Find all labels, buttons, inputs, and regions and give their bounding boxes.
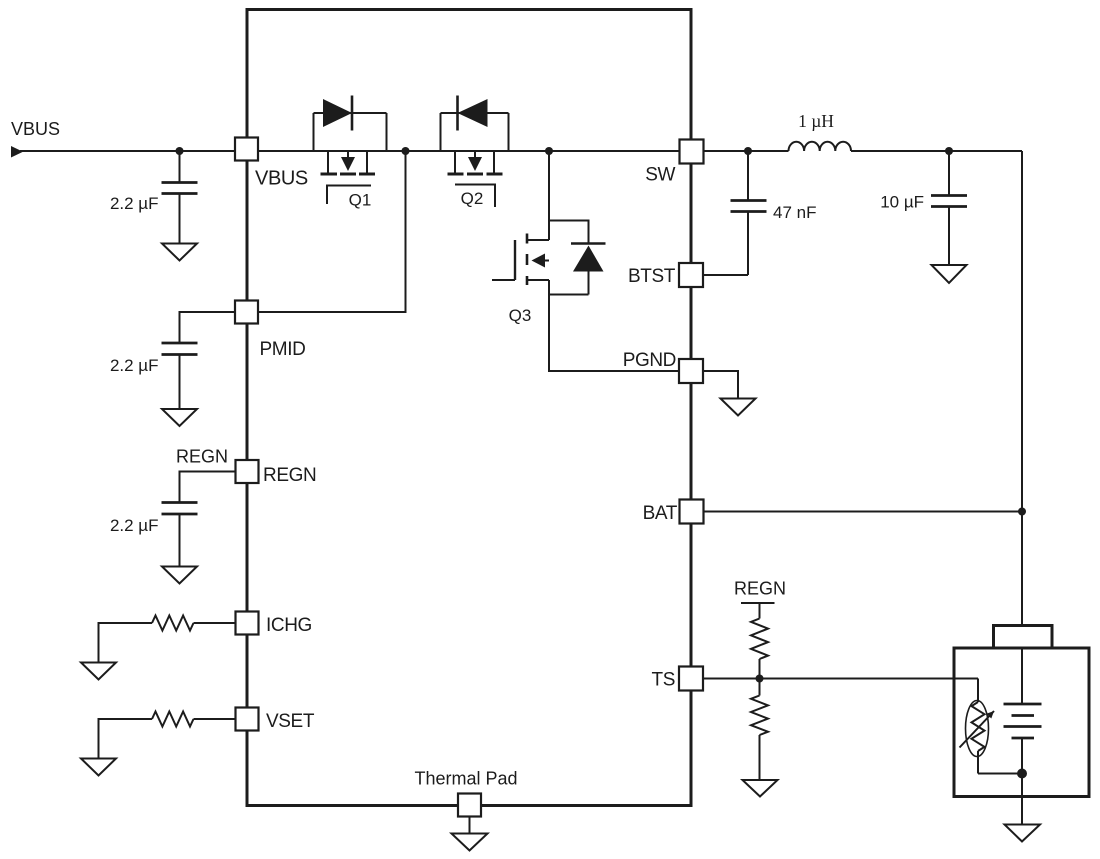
svg-text:REGN: REGN [734, 579, 786, 599]
svg-text:PGND: PGND [623, 350, 676, 371]
svg-text:2.2 µF: 2.2 µF [110, 194, 159, 213]
wire TS to battery pack [703, 678, 978, 680]
junction dot output node [945, 147, 953, 155]
REGN net stub bar [741, 602, 775, 604]
ground at PGND [721, 399, 756, 416]
battery cell BT1 [1004, 704, 1042, 825]
svg-text:2.2 µF: 2.2 µF [110, 516, 159, 535]
pin Thermal Pad [458, 794, 481, 817]
svg-text:BAT: BAT [643, 503, 678, 524]
ground below C2 [162, 409, 197, 426]
wire SW to inductor and output node [704, 150, 789, 152]
svg-text:1 µH: 1 µH [798, 111, 834, 131]
pin BTST [679, 263, 703, 287]
svg-text:VSET: VSET [266, 711, 315, 732]
wire PGND to ground [703, 371, 738, 399]
svg-text:Q3: Q3 [509, 306, 532, 325]
wire main rail VBUS to SW [258, 150, 680, 152]
svg-text:Q1: Q1 [349, 191, 372, 210]
transistor Q1 [314, 96, 387, 205]
wire BAT to battery [704, 511, 1023, 513]
wire Q3 source to PGND [549, 295, 679, 372]
pin PMID [235, 301, 258, 324]
capacitor C1 2.2uF [162, 151, 198, 244]
svg-text:SW: SW [645, 165, 675, 186]
pin BAT [680, 500, 704, 524]
svg-text:47 nF: 47 nF [773, 203, 816, 222]
pin VSET [236, 708, 259, 731]
pin TS [679, 667, 703, 691]
capacitor C5 10uF [931, 151, 967, 265]
junction dot TS node [756, 675, 764, 683]
junction dot SW/Q3 node [545, 147, 553, 155]
thermistor RT1 [960, 679, 1023, 774]
junction dot battery negative [1017, 769, 1027, 779]
ground below R4 [743, 780, 778, 797]
resistor R3 (REGN pull-up) [751, 603, 768, 696]
wire output down right side [1021, 151, 1023, 704]
ground below R1 [81, 663, 116, 680]
wire thermal pad to ground [469, 817, 471, 834]
svg-text:BTST: BTST [628, 266, 676, 287]
capacitor C3 2.2uF [162, 503, 198, 567]
inductor L1 1uH [789, 142, 852, 151]
svg-text:2.2 µF: 2.2 µF [110, 356, 159, 375]
transistor Q2 [441, 96, 509, 208]
pin REGN [236, 460, 259, 483]
junction dot BAT node [1018, 508, 1026, 516]
ground below C1 [162, 244, 197, 261]
junction dot Q1/Q2 PMID node [402, 147, 410, 155]
svg-text:VBUS: VBUS [11, 119, 60, 139]
wire VBUS input [20, 150, 235, 152]
svg-text:VBUS: VBUS [255, 168, 308, 190]
ground below C3 [162, 567, 197, 584]
wire PMID riser [258, 151, 406, 312]
capacitor C2 2.2uF [162, 343, 198, 409]
IC U1 outline [247, 10, 691, 806]
ground below C5 [932, 265, 967, 283]
svg-text:ICHG: ICHG [266, 615, 312, 636]
junction dot SW/C4 [744, 147, 752, 155]
junction dot at C1 [176, 147, 184, 155]
wire inductor to output [851, 150, 1022, 152]
pin ICHG [236, 612, 259, 635]
wire PMID to C2 [180, 312, 236, 343]
ground below battery [1005, 825, 1041, 842]
svg-text:PMID: PMID [260, 339, 306, 360]
capacitor C4 47nF [703, 151, 767, 275]
transistor Q3 [492, 151, 606, 295]
pin PGND [679, 359, 703, 383]
svg-text:REGN: REGN [263, 465, 316, 486]
svg-text:10 µF: 10 µF [880, 193, 924, 212]
svg-text:Q2: Q2 [461, 189, 484, 208]
VBUS input arrow [11, 146, 23, 158]
svg-text:TS: TS [652, 670, 675, 691]
svg-text:REGN: REGN [176, 447, 228, 467]
resistor R1 (ICHG) [99, 616, 236, 663]
resistor R4 (TS lower) [751, 696, 768, 781]
battery pack tab [994, 626, 1053, 649]
pin VBUS [235, 138, 258, 161]
ground below R2 [81, 759, 116, 776]
pin SW [680, 140, 704, 164]
ground below thermal pad [452, 834, 488, 851]
battery pack outline [954, 648, 1089, 797]
wire REGN to C3 [180, 472, 236, 503]
resistor R2 (VSET) [99, 712, 236, 759]
svg-text:Thermal Pad: Thermal Pad [414, 769, 517, 789]
